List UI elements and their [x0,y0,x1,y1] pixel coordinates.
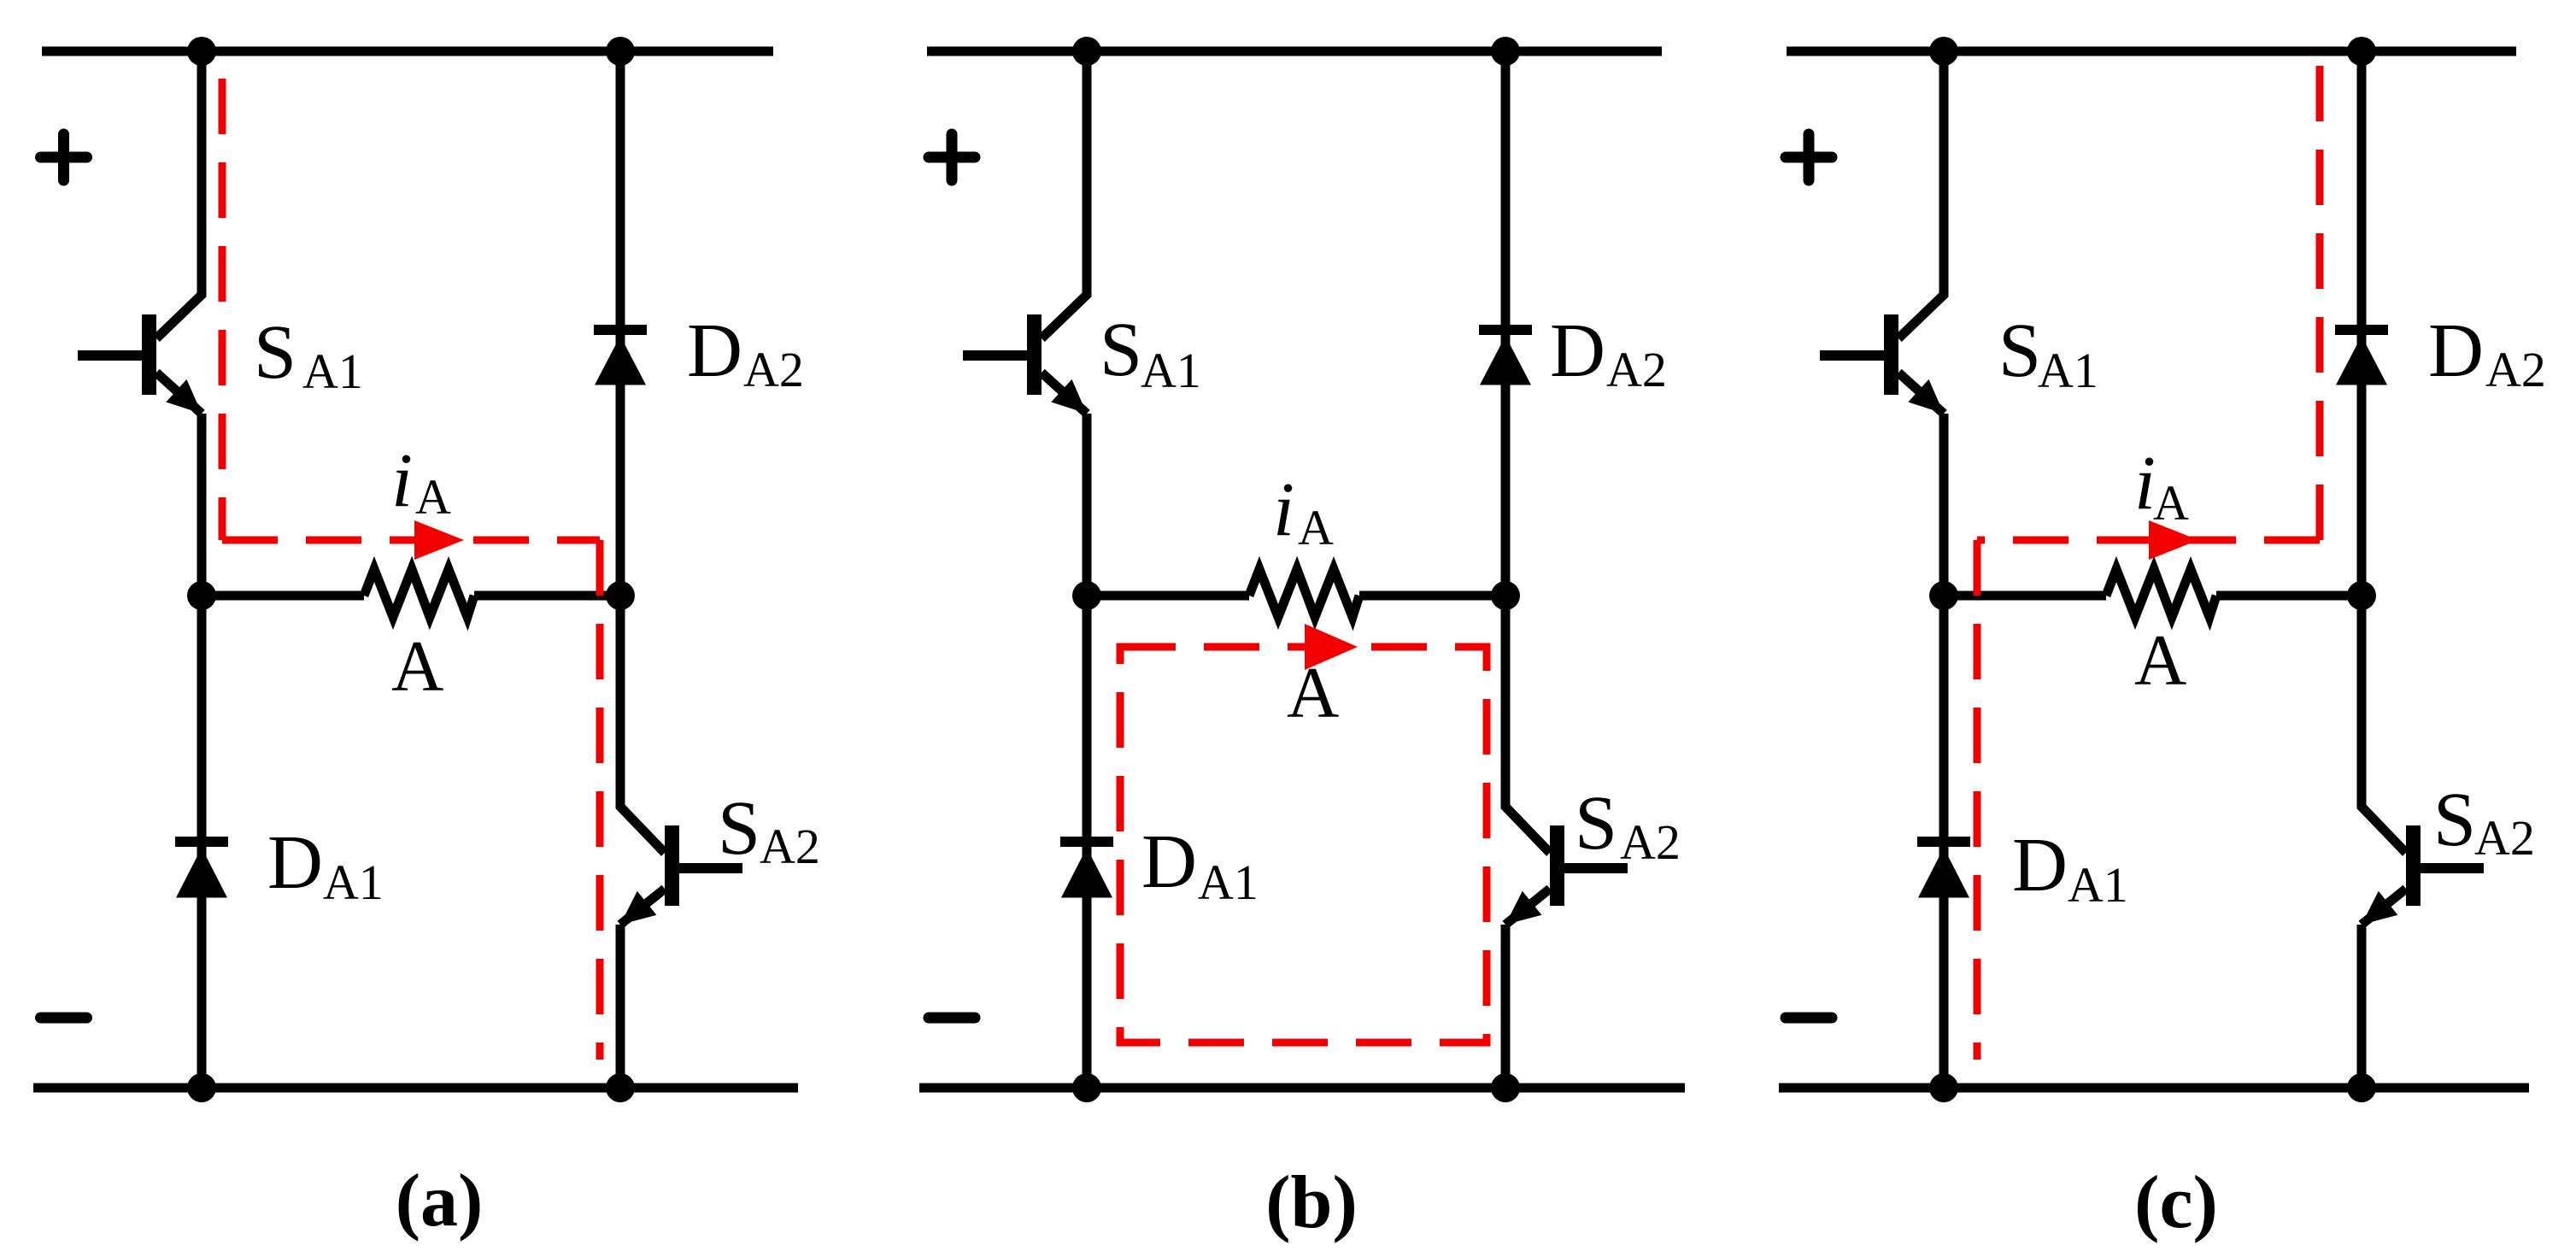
svg-text:A1: A1 [1141,343,1201,398]
svg-text:D: D [1141,819,1197,904]
svg-text:A: A [1287,653,1339,733]
svg-text:D: D [2428,308,2484,393]
svg-text:A1: A1 [1198,855,1259,910]
svg-text:S: S [1998,308,2041,393]
svg-text:A: A [391,626,443,707]
svg-text:(c): (c) [2134,1161,2218,1244]
svg-text:D: D [1550,308,1605,393]
svg-text:S: S [718,786,760,871]
svg-text:D: D [267,820,323,905]
svg-text:A: A [2134,620,2186,701]
svg-text:A2: A2 [743,342,804,397]
svg-text:A2: A2 [1606,342,1667,397]
svg-text:A: A [2153,475,2189,531]
svg-text:D: D [2012,823,2068,908]
svg-text:A2: A2 [2485,342,2546,397]
svg-text:S: S [254,310,296,395]
svg-text:i: i [391,438,413,523]
svg-text:A2: A2 [1620,814,1681,870]
svg-text:A2: A2 [760,819,820,874]
svg-text:S: S [1575,781,1617,866]
svg-text:(a): (a) [396,1160,484,1242]
svg-text:A2: A2 [2474,810,2535,866]
svg-text:i: i [1273,467,1294,552]
svg-text:D: D [687,308,742,393]
svg-text:A1: A1 [2068,857,2128,913]
svg-text:A1: A1 [323,855,384,910]
svg-text:A1: A1 [302,344,363,399]
svg-text:S: S [1100,308,1142,392]
svg-text:A: A [1298,500,1334,555]
svg-text:(b): (b) [1265,1161,1358,1244]
svg-text:S: S [2433,778,2476,862]
svg-text:A1: A1 [2038,343,2098,398]
svg-text:A: A [415,469,451,525]
